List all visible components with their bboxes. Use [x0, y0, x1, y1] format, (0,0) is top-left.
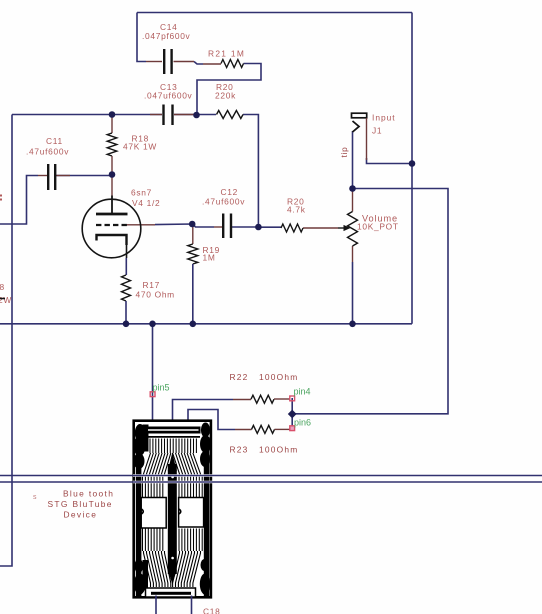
svg-text:pin6: pin6 — [294, 418, 311, 428]
junction node 11 — [349, 321, 356, 328]
junction node 3 — [109, 171, 116, 178]
node pin5 — [150, 383, 169, 397]
node pin6 — [290, 418, 311, 431]
wire main bus y114 — [12, 114, 162, 116]
capacitor C14 — [142, 22, 194, 74]
resistor R17 — [122, 258, 175, 324]
svg-text:V4 1/2: V4 1/2 — [132, 198, 160, 208]
net stub mark — [0, 195, 2, 201]
svg-text:.47uf600v: .47uf600v — [26, 147, 69, 157]
wire node C to R20 4.7k — [258, 226, 281, 228]
svg-text:8: 8 — [0, 282, 5, 292]
svg-text:R21 1M: R21 1M — [208, 49, 245, 59]
capacitor C13 — [144, 82, 196, 125]
wire C11 to node B — [56, 175, 113, 177]
resistor R20 4.7k — [281, 197, 306, 233]
node pin4 — [290, 387, 311, 401]
wiper arrow — [338, 225, 351, 231]
svg-text:pin5: pin5 — [153, 383, 170, 393]
junction node 2 — [193, 112, 200, 119]
svg-text:Blue tooth: Blue tooth — [63, 489, 114, 499]
svg-text:.47uf600v: .47uf600v — [202, 197, 245, 207]
wire grid to R19 node — [127, 224, 156, 226]
wire long bus y475 — [133, 474, 213, 476]
junction node 7 — [409, 160, 416, 167]
svg-text:C12: C12 — [221, 187, 238, 197]
potentiometer Volume 10K_POT — [348, 212, 399, 247]
svg-text:s: s — [33, 494, 37, 501]
wire R22 to device — [173, 400, 234, 434]
junction node 1 — [109, 111, 116, 118]
module BT1 Blue tooth STG BluTube Device — [134, 421, 212, 598]
wire device bottom pin left — [155, 596, 157, 614]
svg-text:6sn7: 6sn7 — [131, 188, 152, 198]
svg-text:C11: C11 — [46, 136, 63, 146]
wire ground bus y324 — [0, 323, 412, 325]
wire C11 left tail — [0, 176, 38, 225]
svg-text:STG BluTube: STG BluTube — [48, 499, 113, 509]
svg-text:47K 1W: 47K 1W — [123, 142, 157, 152]
svg-text:R17: R17 — [143, 280, 160, 290]
wire C14 left drop — [137, 13, 146, 62]
wire pot top to pin4 net — [292, 189, 448, 414]
svg-text:1M: 1M — [203, 253, 216, 263]
svg-text:tip: tip — [339, 147, 349, 158]
svg-text:10K_POT: 10K_POT — [357, 222, 399, 232]
svg-text:R22 100Ohm: R22 100Ohm — [230, 372, 299, 382]
resistor R23 — [230, 425, 299, 454]
svg-text:2W: 2W — [0, 295, 12, 305]
wire R20 4.7k to pot wiper — [303, 227, 338, 229]
resistor R19 — [188, 224, 220, 324]
svg-text:220k: 220k — [215, 91, 236, 101]
junction node 10 — [190, 321, 197, 328]
junction node 4 — [189, 221, 196, 228]
wire long bus y482 — [0, 481, 542, 483]
junction node 8 — [123, 321, 130, 328]
svg-text:pin4: pin4 — [294, 387, 311, 397]
svg-text:470 Ohm: 470 Ohm — [136, 290, 175, 300]
svg-text:Device: Device — [64, 510, 98, 520]
svg-text:C18: C18 — [203, 607, 220, 614]
wire pin4-pin6 link — [291, 398, 293, 429]
wire top rail — [137, 12, 412, 14]
resistor R18 — [107, 115, 157, 175]
junction node 5 — [255, 224, 262, 231]
wire R20 220k to C12 node — [243, 115, 258, 228]
junction node pin4-pin6 — [288, 410, 297, 419]
resistor R21 — [203, 49, 245, 68]
svg-text:R23 100Ohm: R23 100Ohm — [230, 445, 299, 455]
capacitor C11 — [26, 136, 70, 190]
wire right rail — [411, 13, 413, 324]
wire device bottom pin right — [191, 596, 193, 614]
capacitor C12 — [202, 187, 245, 238]
resistor R20 220k — [215, 82, 243, 119]
junction node 6 — [349, 185, 356, 192]
resistor R22 — [230, 372, 299, 403]
wire pin5 drop — [152, 324, 154, 433]
svg-text:Input: Input — [372, 113, 396, 123]
junction node 9 — [149, 321, 156, 328]
triode U1 6sn7 — [82, 174, 160, 258]
svg-text:4.7k: 4.7k — [287, 205, 306, 215]
wire left rail — [0, 115, 12, 567]
svg-text:.047pf600v: .047pf600v — [142, 31, 191, 41]
svg-text:.047uf600v: .047uf600v — [144, 91, 193, 101]
wire R23 to device — [188, 410, 235, 434]
wire C12 right to node C — [232, 226, 258, 228]
jack J1 Input — [339, 113, 396, 161]
wire pot bottom — [352, 246, 354, 262]
wire jack sleeve to right rail — [367, 158, 413, 164]
label Blue tooth STG BluTube Device — [48, 489, 115, 520]
partial component label left edge — [0, 282, 12, 305]
svg-text:J1: J1 — [372, 126, 382, 136]
wire jack tip down to pot top — [352, 131, 354, 189]
wire R21 jog to node A — [194, 62, 203, 65]
